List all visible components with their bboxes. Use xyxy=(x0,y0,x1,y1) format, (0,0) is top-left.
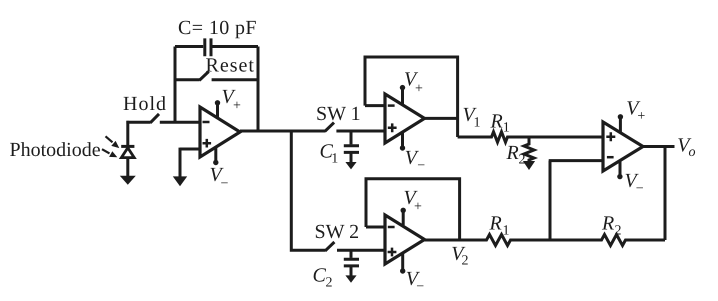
svg-text:1: 1 xyxy=(503,120,510,135)
svg-text:SW 2: SW 2 xyxy=(315,221,360,243)
svg-text:1: 1 xyxy=(331,152,338,167)
svg-text:−: − xyxy=(636,182,644,197)
svg-text:+: + xyxy=(637,109,645,124)
svg-text:−: − xyxy=(221,176,229,191)
svg-text:SW 1: SW 1 xyxy=(316,103,361,125)
svg-text:−: − xyxy=(416,279,424,294)
svg-text:R: R xyxy=(506,142,519,164)
svg-text:R: R xyxy=(601,212,614,234)
svg-text:C: C xyxy=(313,264,327,286)
svg-text:2: 2 xyxy=(462,253,469,268)
svg-text:+: + xyxy=(414,199,422,214)
svg-text:2: 2 xyxy=(615,223,622,238)
svg-text:2: 2 xyxy=(326,275,333,290)
svg-text:+: + xyxy=(233,99,241,114)
svg-text:Photodiode: Photodiode xyxy=(10,139,101,161)
svg-text:C= 10 pF: C= 10 pF xyxy=(178,17,257,39)
svg-text:Hold: Hold xyxy=(123,93,167,115)
svg-text:+: + xyxy=(415,82,423,97)
svg-text:R: R xyxy=(489,212,502,234)
svg-text:o: o xyxy=(689,145,696,160)
svg-text:Reset: Reset xyxy=(206,55,255,77)
svg-text:2: 2 xyxy=(519,152,526,167)
svg-text:1: 1 xyxy=(474,115,481,130)
svg-text:−: − xyxy=(417,158,425,173)
svg-text:1: 1 xyxy=(503,223,510,238)
svg-text:R: R xyxy=(490,111,503,133)
